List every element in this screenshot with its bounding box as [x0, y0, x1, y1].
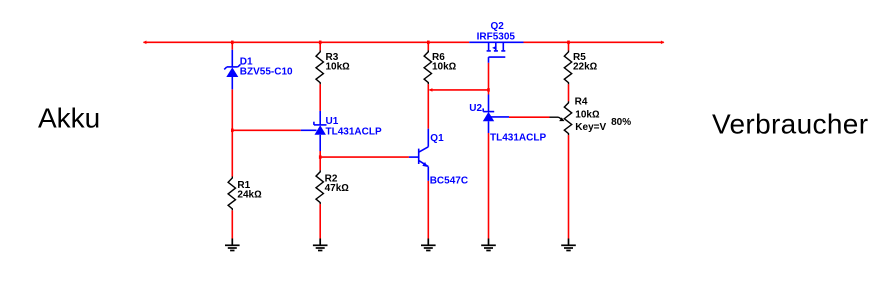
potentiometer R4 — [564, 101, 571, 135]
wire U1 anode to node B — [319, 151, 321, 170]
svg-text:BC547C: BC547C — [430, 176, 468, 187]
op-amp U2 TL431 shunt reference — [483, 95, 509, 134]
resistor R2 — [316, 170, 323, 204]
wire D1 column top — [231, 42, 233, 50]
resistor R6 — [424, 50, 431, 84]
svg-text:Q2: Q2 — [491, 21, 505, 32]
svg-text:47kΩ: 47kΩ — [325, 183, 350, 194]
wire R3 to U1 cathode — [319, 84, 321, 111]
wire R2 to ground — [319, 204, 321, 238]
wire R1 to ground — [231, 210, 233, 238]
wire R4 to ground — [568, 135, 570, 238]
svg-text:Verbraucher: Verbraucher — [712, 108, 868, 139]
wire Q1 emitter to ground — [427, 181, 429, 239]
svg-text:10kΩ: 10kΩ — [575, 110, 600, 121]
arrow top-left wire end — [143, 41, 147, 45]
wire R6 to Q1 collector — [427, 84, 429, 129]
junction dot top R3 — [319, 41, 322, 45]
junction dot top R6 — [427, 41, 430, 45]
junction dot node C — [487, 88, 490, 92]
ground under R1 — [225, 239, 240, 251]
arrow node C wire end — [429, 88, 433, 92]
arrow top-right wire end — [661, 41, 665, 45]
junction dot node A — [231, 129, 234, 133]
wire D1 to node A — [231, 89, 233, 176]
junction dot top D1 — [231, 41, 234, 45]
svg-text:Q1: Q1 — [430, 133, 444, 144]
op-amp U1 TL431 shunt reference — [301, 111, 327, 151]
wire top rail left segment — [144, 41, 470, 43]
svg-text:24kΩ: 24kΩ — [237, 190, 262, 201]
ground under R2 — [313, 239, 328, 251]
ground under R4 — [561, 239, 576, 251]
zener diode D1 — [224, 50, 240, 90]
wire R3 column top — [319, 42, 321, 50]
ground under U2 — [481, 239, 496, 251]
wire top rail right segment — [524, 41, 664, 43]
svg-text:10kΩ: 10kΩ — [326, 62, 351, 73]
svg-text:IRF5305: IRF5305 — [477, 32, 516, 43]
wire node C horizontal to gate column — [430, 89, 489, 91]
wire Q2 gate down — [488, 63, 490, 95]
potentiometer R4 wiper arrow — [550, 117, 565, 121]
transistor Q1 BC547C NPN — [409, 129, 428, 181]
svg-text:BZV55-C10: BZV55-C10 — [240, 66, 293, 77]
svg-text:R4: R4 — [575, 97, 588, 108]
svg-text:U2: U2 — [469, 103, 482, 114]
wire U2 ref to R4 wiper — [509, 116, 550, 118]
wire node B to Q1 base — [320, 156, 409, 158]
junction dot node B — [319, 155, 322, 159]
svg-text:10kΩ: 10kΩ — [432, 62, 457, 73]
wire U2 anode to ground — [488, 133, 490, 239]
wire R6 column top — [427, 42, 429, 50]
svg-text:80%: 80% — [611, 117, 631, 128]
svg-text:22kΩ: 22kΩ — [573, 62, 598, 73]
wire R5 to R4 — [568, 84, 570, 101]
wire node A to U1 ref — [232, 129, 300, 131]
wire R5 column top — [568, 42, 570, 50]
resistor R3 — [316, 50, 323, 84]
resistor R1 — [228, 177, 235, 211]
ground under Q1 — [421, 239, 436, 251]
svg-text:TL431ACLP: TL431ACLP — [326, 126, 382, 137]
resistor R5 — [564, 50, 571, 84]
svg-text:Akku: Akku — [38, 103, 100, 134]
transistor Q2 IRF5305 PMOS — [469, 42, 523, 63]
junction dot top R5 — [567, 41, 570, 45]
svg-text:Key=V: Key=V — [575, 122, 606, 133]
svg-text:TL431ACLP: TL431ACLP — [490, 133, 546, 144]
